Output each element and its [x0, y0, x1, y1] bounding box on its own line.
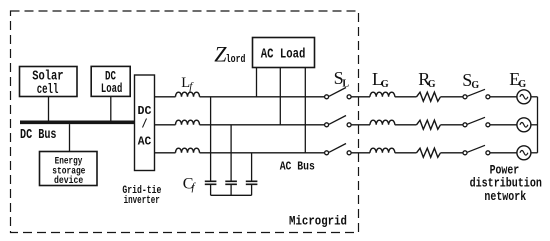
capacitor Cf phase B — [225, 181, 237, 184]
svg-text:Load: Load — [101, 82, 122, 96]
inductor LG phase A — [370, 92, 395, 97]
label EG — [509, 69, 526, 90]
wire LG to RG phase A — [395, 96, 417, 98]
AC source EG phase A — [517, 90, 531, 104]
label Cf — [183, 175, 197, 192]
switch SG phase A — [463, 89, 490, 99]
wire RG to SG phase B — [441, 124, 464, 126]
resistor RG phase C — [417, 148, 441, 157]
switch SG phase C — [463, 145, 490, 155]
inductor LG phase B — [370, 120, 395, 125]
solar cell box — [20, 67, 78, 97]
svg-text:inverter: inverter — [124, 195, 160, 207]
AC load box — [253, 38, 315, 68]
wire phase C to switch — [200, 152, 325, 154]
wire EG phase A to right bus — [531, 96, 538, 98]
inductor LG phase C — [370, 148, 395, 153]
wire phase B to switch — [200, 124, 325, 126]
label Grid-tie inverter — [122, 185, 161, 207]
switch SL phase B — [325, 116, 352, 127]
wire phase B from inverter — [155, 124, 176, 126]
svg-text:G: G — [518, 79, 526, 90]
wire AC load to phase C — [304, 68, 306, 153]
wire AC load to phase B — [279, 68, 281, 125]
wire phase C from inverter — [155, 152, 176, 154]
switch SL phase C — [325, 144, 352, 155]
energy storage device box — [40, 152, 98, 186]
resistor RG phase A — [417, 92, 441, 101]
label DC/AC inside inverter — [138, 104, 152, 149]
wire SG to EG phase B — [490, 124, 517, 126]
svg-text:G: G — [428, 79, 436, 90]
wire capacitor branch 2 — [230, 125, 232, 181]
wire LG to RG phase C — [395, 152, 417, 154]
label Lf — [181, 75, 194, 92]
svg-text:cell: cell — [37, 83, 59, 98]
wire DC load to DC bus — [110, 96, 112, 120]
label Power distribution network — [470, 164, 542, 205]
wire capacitor 3 to bottom — [251, 185, 253, 196]
wire capacitor 2 to bottom — [230, 185, 232, 196]
wire LG to RG phase B — [395, 124, 417, 126]
capacitor Cf phase C — [246, 181, 258, 184]
wire SL to LG phase B — [351, 124, 370, 126]
right vertical bus of grid — [537, 97, 539, 153]
grid-tie inverter box DC/AC — [135, 75, 155, 171]
wire RG to SG phase C — [441, 152, 464, 154]
svg-text:network: network — [484, 190, 526, 204]
wire SL to LG phase A — [351, 96, 370, 98]
svg-text:Power: Power — [490, 164, 520, 178]
inductor Lf phase C — [176, 148, 200, 153]
svg-text:L: L — [342, 78, 349, 89]
DC load box — [91, 66, 130, 96]
wire SG to EG phase C — [490, 152, 517, 154]
inductor Lf phase A — [176, 92, 200, 97]
wire SG to EG phase A — [490, 96, 517, 98]
wire AC load to phase A — [256, 68, 258, 97]
svg-text:DC: DC — [138, 104, 152, 118]
wire phase A to switch — [200, 96, 325, 98]
switch SG phase B — [463, 117, 490, 127]
microgrid boundary dashed box — [11, 11, 359, 233]
wire DC bus to energy storage — [69, 124, 71, 152]
label SG — [462, 70, 479, 91]
svg-text:DC Bus: DC Bus — [20, 128, 57, 143]
wire capacitor branch 1 — [210, 97, 212, 181]
wire solar cell to DC bus — [48, 97, 50, 121]
label RG — [418, 69, 435, 90]
label Solar cell — [32, 70, 63, 99]
svg-text:device: device — [54, 175, 83, 187]
AC source EG phase B — [517, 118, 531, 132]
wire SL to LG phase C — [351, 152, 370, 154]
svg-text:lord: lord — [226, 54, 246, 66]
label SL — [334, 68, 350, 89]
wire capacitor branch 3 — [251, 153, 253, 181]
svg-text:Microgrid: Microgrid — [289, 213, 347, 228]
svg-text:AC Load: AC Load — [261, 47, 306, 62]
svg-text:G: G — [471, 80, 479, 91]
capacitor Cf phase A — [205, 181, 217, 184]
label Zlord — [214, 42, 245, 67]
wire RG to SG phase A — [441, 96, 464, 98]
svg-text:AC: AC — [138, 135, 152, 149]
switch SL phase A — [325, 88, 352, 99]
wire EG phase C to right bus — [531, 152, 538, 154]
label LG — [372, 69, 389, 90]
wire capacitor common bottom — [211, 194, 252, 196]
label DC Load — [101, 70, 122, 96]
DC bus (thick line) — [20, 121, 135, 125]
svg-text:AC Bus: AC Bus — [280, 161, 315, 174]
wire EG phase B to right bus — [531, 124, 538, 126]
inductor Lf phase B — [176, 120, 200, 125]
AC source EG phase C — [517, 146, 531, 160]
label Energy storage device — [52, 155, 85, 187]
svg-text:G: G — [381, 79, 389, 90]
wire capacitor 1 to bottom — [210, 185, 212, 196]
svg-text:distribution: distribution — [470, 177, 542, 191]
wire phase A from inverter — [155, 96, 176, 98]
resistor RG phase B — [417, 120, 441, 129]
svg-text:/: / — [142, 118, 148, 132]
